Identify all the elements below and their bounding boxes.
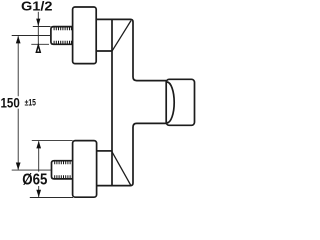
arrow 150 bottom (filled, pointing down) bbox=[16, 163, 21, 171]
upper diagonal bbox=[112, 21, 131, 51]
top escutcheon (wall flange) bbox=[73, 7, 97, 64]
lower connector top edge bbox=[97, 150, 112, 152]
escutcheon bottom extension line bbox=[30, 197, 73, 199]
thread bottom extension line bbox=[31, 43, 49, 45]
thread top extension line bbox=[33, 26, 51, 28]
svg-text:G1/2: G1/2 bbox=[21, 0, 53, 13]
bottom inlet centerline bbox=[12, 169, 52, 171]
thread hatch ticks: top thread bbox=[54, 27, 71, 43]
svg-text:150: 150 bbox=[1, 95, 20, 110]
cylinder dome arc bbox=[167, 82, 174, 123]
top inlet thread G1/2 bbox=[51, 27, 73, 45]
escutcheon top extension line bbox=[32, 139, 73, 141]
top inlet centerline bbox=[12, 35, 51, 37]
thread hatch ticks: bottom thread bbox=[55, 162, 70, 179]
dimension lines bbox=[12, 12, 73, 198]
G1/2 dimension vertical line bbox=[37, 12, 39, 45]
bottom inlet thread G1/2 bbox=[52, 161, 74, 179]
Ø65 dimension vertical line (interrupted by text) bbox=[38, 141, 40, 197]
arrow G1/2 top (filled, pointing down) bbox=[36, 19, 40, 27]
arrow Ø65 top (filled, pointing up) bbox=[36, 141, 41, 149]
svg-text:Ø65: Ø65 bbox=[22, 171, 47, 188]
body inner vertical edge bbox=[111, 19, 113, 185]
cartridge cylinder bbox=[166, 79, 194, 125]
arrow Ø65 bottom (filled, pointing down) bbox=[36, 190, 41, 198]
upper connector bottom edge bbox=[96, 50, 112, 52]
lower diagonal bbox=[112, 151, 131, 185]
bottom escutcheon (wall flange, Ø65) bbox=[73, 141, 97, 198]
body top edge and right edge down to upper ledge bbox=[96, 19, 166, 80]
150 dimension vertical line (interrupted by text) bbox=[17, 36, 19, 169]
lower ledge, right edge and bottom edge bbox=[97, 123, 166, 185]
svg-text:±15: ±15 bbox=[25, 98, 37, 109]
arrow 150 top (filled, pointing up) bbox=[16, 36, 21, 44]
arrow G1/2 bottom (open, pointing up) bbox=[36, 45, 40, 52]
